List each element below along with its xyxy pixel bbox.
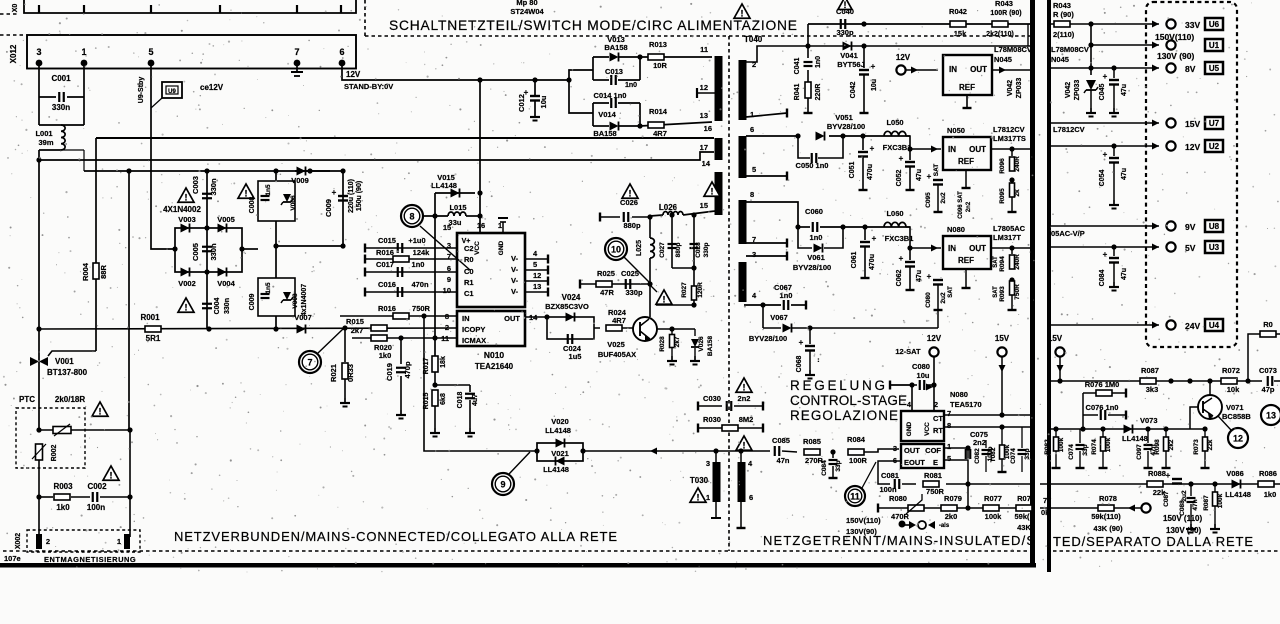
svg-text:U7: U7	[1209, 119, 1220, 128]
resistor R028	[671, 329, 673, 334]
svg-text:C087: C087	[1163, 491, 1170, 507]
svg-text:C097: C097	[1136, 444, 1143, 460]
svg-text:10u: 10u	[917, 371, 930, 380]
resistor R002	[36, 444, 43, 460]
wire 24V	[1051, 324, 1159, 326]
svg-text:BYT56J: BYT56J	[837, 60, 865, 69]
svg-text:V026: V026	[698, 336, 705, 352]
svg-text:SAT: SAT	[948, 286, 954, 298]
inductor L060	[884, 222, 906, 227]
svg-text:15: 15	[700, 201, 708, 210]
wire EOUT to C081	[878, 461, 901, 484]
wire x130 down	[129, 430, 131, 537]
wire into diode network	[569, 70, 593, 113]
svg-text:6: 6	[749, 493, 753, 502]
triac V001	[48, 351, 96, 356]
svg-text:U1: U1	[1209, 41, 1220, 50]
svg-text:EOUT: EOUT	[904, 458, 925, 467]
capacitor C014	[593, 103, 640, 126]
wire 33V	[1091, 23, 1159, 25]
wire into OUT pin3	[864, 449, 899, 452]
capacitor C041	[807, 24, 809, 46]
svg-text:V009: V009	[291, 176, 309, 185]
pin4 row C067	[744, 304, 781, 306]
T040 primary bar lower	[715, 172, 723, 215]
svg-text:C0: C0	[464, 267, 474, 276]
warning triangle above C026	[622, 184, 638, 198]
svg-text:··: ··	[816, 358, 823, 363]
svg-text:ICOPY: ICOPY	[462, 325, 485, 334]
inductor L050	[884, 131, 906, 136]
svg-text:C080: C080	[925, 292, 932, 308]
svg-text:REF: REF	[959, 83, 975, 92]
svg-text:U9: U9	[168, 89, 176, 95]
svg-text:+: +	[872, 234, 877, 243]
wire pin8 row	[746, 202, 798, 227]
svg-text:6: 6	[750, 125, 754, 134]
node circle 10	[605, 238, 627, 260]
svg-text:RT: RT	[933, 426, 943, 435]
node circle 9	[492, 473, 514, 495]
svg-text:220R: 220R	[815, 84, 822, 101]
diode V073	[1124, 425, 1133, 434]
svg-text:C074: C074	[1010, 448, 1017, 464]
svg-text:C052: C052	[896, 170, 903, 187]
resistor R018	[340, 315, 457, 317]
vertical x1091	[1090, 24, 1092, 75]
svg-text:100R (90): 100R (90)	[990, 10, 1021, 17]
svg-text:!: !	[741, 8, 744, 18]
svg-text:!: !	[110, 470, 113, 480]
resistor R084	[848, 449, 864, 455]
svg-text:R0: R0	[464, 255, 474, 264]
resistor R001	[145, 326, 161, 332]
svg-text:ENTMAGNETISIERUNG: ENTMAGNETISIERUNG	[44, 555, 136, 564]
svg-text:BUF405AX: BUF405AX	[598, 350, 636, 359]
wire 12V	[1051, 145, 1159, 147]
svg-text:11: 11	[850, 492, 860, 502]
svg-text:R086: R086	[1259, 469, 1277, 478]
svg-text:V020: V020	[551, 417, 569, 426]
warning triangle at pin15	[704, 182, 720, 196]
svg-text:R073: R073	[1193, 439, 1200, 455]
svg-text:L78M08CV: L78M08CV	[1051, 45, 1089, 54]
svg-text:C013: C013	[605, 67, 623, 76]
svg-text:LM317TS: LM317TS	[993, 134, 1026, 143]
resistor R082L	[1000, 445, 1005, 459]
inductor L001	[39, 124, 84, 126]
svg-text:COF: COF	[925, 446, 941, 455]
diode V061 parallel	[798, 227, 843, 248]
diode V002	[181, 268, 190, 277]
resistor R087 right	[1140, 378, 1156, 384]
svg-text:R078: R078	[1099, 494, 1117, 503]
svg-text:100n: 100n	[87, 503, 105, 512]
wire E row	[944, 459, 968, 461]
diagonal from circle 7	[318, 329, 343, 353]
PTC dashed box	[16, 408, 85, 468]
svg-text:X002: X002	[15, 533, 22, 549]
resistor R095	[1010, 183, 1015, 197]
svg-text:R079: R079	[944, 494, 962, 503]
svg-text:2n2: 2n2	[738, 394, 751, 403]
svg-text:N010: N010	[484, 350, 505, 360]
svg-text:2n2: 2n2	[966, 201, 972, 212]
wire 12-SAT down	[933, 357, 935, 411]
svg-text:V086: V086	[1226, 469, 1244, 478]
svg-text:BZX85C3VO: BZX85C3VO	[545, 302, 589, 311]
capacitor C015	[364, 244, 366, 253]
svg-text:15: 15	[443, 223, 451, 232]
svg-text:12: 12	[700, 83, 708, 92]
svg-text:1: 1	[947, 442, 951, 451]
svg-text:U5: U5	[1209, 64, 1220, 73]
svg-text:FXC3B1: FXC3B1	[885, 234, 914, 243]
svg-text:1n5: 1n5	[265, 282, 272, 294]
svg-text:150V(110): 150V(110)	[846, 516, 881, 525]
svg-text:15k: 15k	[954, 29, 967, 38]
svg-text:TEA5170: TEA5170	[950, 400, 982, 409]
svg-text:VCC: VCC	[924, 422, 931, 436]
resistor R013	[640, 56, 712, 58]
resistor R098	[1165, 429, 1167, 437]
svg-text:REF: REF	[958, 157, 974, 166]
svg-text:7: 7	[947, 409, 951, 418]
svg-text:100R: 100R	[849, 456, 868, 465]
capacitor C073	[1267, 376, 1269, 386]
svg-text:9: 9	[447, 275, 451, 284]
svg-text:100p: 100p	[987, 447, 994, 462]
svg-text:750R: 750R	[926, 487, 945, 496]
page frame: left page bottom edge (thick)	[0, 563, 1036, 568]
svg-text:V021: V021	[551, 449, 569, 458]
svg-text:2u2: 2u2	[940, 292, 947, 304]
resistor R094	[1011, 248, 1013, 254]
svg-text:C001: C001	[51, 74, 71, 83]
svg-text:8: 8	[409, 212, 414, 222]
arrow to 150V terminal	[1128, 505, 1135, 512]
V071 collector	[1209, 381, 1211, 396]
svg-text:C082: C082	[974, 448, 981, 464]
svg-text:R074: R074	[1091, 439, 1098, 455]
X002 pin 2	[36, 534, 42, 549]
svg-text:1k0: 1k0	[379, 351, 392, 360]
svg-text:U9-Stby: U9-Stby	[138, 77, 145, 104]
svg-text:3: 3	[36, 47, 41, 57]
svg-text:ZP033: ZP033	[1074, 80, 1081, 101]
T040 secondary bar 2-1	[739, 60, 747, 120]
box U1	[1205, 39, 1223, 51]
resistor R021	[344, 328, 346, 362]
svg-text:47n: 47n	[1192, 499, 1199, 510]
capacitor C027 и C028 box	[671, 215, 673, 268]
resistor R093	[1010, 281, 1015, 295]
svg-text:C068: C068	[796, 356, 803, 373]
svg-text:R030: R030	[703, 415, 721, 424]
svg-text:150u (90): 150u (90)	[356, 181, 363, 211]
bus wire y160	[39, 152, 714, 160]
svg-text:240R: 240R	[1014, 156, 1021, 172]
svg-text:Мр 80: Мр 80	[516, 0, 537, 7]
vertical x39 main left rail	[38, 160, 40, 355]
connector X002 dashed box	[27, 530, 140, 552]
wire bottom row y508	[877, 504, 879, 513]
capacitor C084b	[832, 452, 834, 458]
resistor R003	[36, 494, 41, 499]
capacitor C060	[798, 226, 810, 228]
stub wire y246	[276, 245, 343, 247]
svg-text:R0: R0	[1263, 320, 1273, 329]
svg-text:LL4148: LL4148	[545, 426, 571, 435]
svg-text:R1: R1	[464, 278, 474, 287]
svg-text:R025: R025	[597, 269, 615, 278]
svg-text:V042: V042	[1007, 80, 1014, 96]
capacitor C074 right	[1079, 429, 1081, 443]
resistor R078	[1098, 505, 1114, 511]
svg-text:5: 5	[533, 260, 537, 269]
resistor R074	[1102, 429, 1104, 437]
svg-text:V014: V014	[598, 110, 616, 119]
diagonal from circle 10	[624, 257, 650, 283]
svg-text:+: +	[1103, 250, 1108, 259]
svg-text:0R33: 0R33	[346, 364, 355, 382]
terminal 12V	[1166, 141, 1175, 150]
spark gap symbol	[918, 521, 926, 529]
svg-text:C014 1n0: C014 1n0	[594, 91, 627, 100]
svg-text:L060: L060	[886, 209, 903, 218]
box U4	[1205, 319, 1223, 331]
op-amp N010 IC body lower	[457, 311, 525, 346]
svg-text:C060: C060	[805, 207, 823, 216]
svg-text:59k(: 59k(	[1014, 512, 1030, 521]
T030 bar left	[713, 462, 721, 502]
svg-text:C081: C081	[881, 471, 899, 480]
svg-text:N050: N050	[947, 126, 965, 135]
wire 8V	[1051, 67, 1159, 69]
svg-text:R096: R096	[999, 158, 1006, 174]
svg-text:2: 2	[934, 400, 938, 409]
capacitor C001 box	[39, 85, 84, 125]
node circle 13	[1261, 405, 1280, 425]
svg-text:LL4148: LL4148	[1225, 490, 1251, 499]
bridge right connection	[242, 248, 258, 250]
svg-text:3: 3	[752, 250, 756, 259]
diagonal from circle 11	[862, 462, 876, 488]
svg-text:8: 8	[947, 421, 951, 430]
svg-text:12: 12	[1233, 434, 1243, 444]
svg-text:39m: 39m	[38, 138, 53, 147]
svg-text:R072: R072	[1222, 366, 1240, 375]
svg-text:REGOLAZIONE: REGOLAZIONE	[790, 408, 898, 423]
svg-text:C015: C015	[378, 236, 396, 245]
svg-text:R004: R004	[81, 262, 90, 281]
svg-text:L015: L015	[449, 203, 466, 212]
svg-text:!: !	[743, 382, 746, 392]
resistor R077	[983, 505, 999, 511]
svg-text:C076 1n0: C076 1n0	[1086, 403, 1119, 412]
svg-text:C009: C009	[249, 294, 256, 311]
diode V020 V021 box	[537, 443, 583, 461]
svg-text:9V: 9V	[1185, 222, 1196, 232]
node circle 12	[1228, 428, 1248, 448]
svg-text:R013: R013	[649, 40, 667, 49]
svg-text:L78M08CV: L78M08CV	[994, 45, 1032, 54]
svg-text:18k: 18k	[440, 356, 447, 368]
svg-text:CT: CT	[933, 414, 943, 423]
svg-text:470u: 470u	[867, 164, 874, 180]
svg-text:33p: 33p	[1082, 444, 1089, 455]
svg-text:IN: IN	[948, 145, 956, 154]
svg-text:!: !	[663, 294, 666, 304]
svg-text:+: +	[870, 144, 875, 153]
svg-text:R087: R087	[1141, 366, 1159, 375]
svg-text:T040: T040	[744, 35, 763, 44]
resistor R043 left page	[992, 21, 1008, 27]
resistor R082 right	[1055, 429, 1057, 437]
svg-text:L050: L050	[886, 118, 903, 127]
svg-text:R084: R084	[847, 435, 866, 444]
capacitor C013	[593, 79, 609, 81]
svg-text:V024: V024	[562, 293, 581, 302]
svg-text:R001: R001	[140, 313, 160, 322]
svg-text:U3: U3	[1209, 243, 1220, 252]
svg-text:3k3: 3k3	[1146, 385, 1159, 394]
svg-text:C050 1n0: C050 1n0	[796, 161, 829, 170]
svg-text:BT137-800: BT137-800	[47, 368, 88, 377]
svg-text:C018: C018	[457, 392, 464, 409]
svg-text:+: +	[927, 272, 932, 281]
svg-text:-als: -als	[939, 523, 950, 529]
svg-text:V073: V073	[1140, 416, 1158, 425]
svg-text:ce12V: ce12V	[200, 83, 224, 92]
svg-text:R088: R088	[1148, 469, 1166, 478]
capacitor C004 below bridge	[206, 272, 208, 329]
svg-text:7: 7	[307, 358, 312, 368]
svg-text:V067: V067	[770, 313, 788, 322]
svg-text:330p: 330p	[836, 28, 854, 37]
svg-text:R014: R014	[649, 107, 668, 116]
svg-text:33p: 33p	[835, 460, 842, 471]
resistor R041	[807, 70, 809, 82]
zener V042 left page	[1027, 24, 1029, 46]
vertical feeder x96	[95, 138, 97, 351]
capacitor C017	[364, 268, 366, 277]
box U2	[1205, 140, 1223, 152]
svg-text:X012: X012	[9, 44, 18, 63]
svg-text:R027: R027	[681, 282, 688, 298]
svg-text:LL4148: LL4148	[1122, 434, 1148, 443]
svg-text:V001: V001	[55, 357, 74, 366]
svg-text:R016: R016	[376, 248, 394, 257]
svg-text:1k0: 1k0	[1264, 490, 1277, 499]
diode V051	[816, 132, 825, 141]
svg-text:R081: R081	[924, 471, 942, 480]
svg-text:R002: R002	[51, 445, 58, 462]
wire N045 out	[992, 69, 1030, 71]
svg-text:6k8: 6k8	[440, 393, 447, 405]
svg-text:C080: C080	[912, 362, 930, 371]
svg-text:SAT: SAT	[993, 256, 999, 268]
svg-text:VCC: VCC	[474, 241, 481, 255]
electrolytic C068	[809, 328, 811, 344]
svg-text:OUT: OUT	[504, 314, 520, 323]
svg-text:22k: 22k	[1207, 439, 1214, 450]
capacitor C005	[206, 228, 208, 272]
wire pin6 stand-by 0V	[342, 62, 569, 80]
capacitor C095 SAT	[933, 179, 943, 181]
svg-text:43K (90): 43K (90)	[1093, 524, 1123, 533]
svg-text:R098: R098	[1154, 439, 1161, 455]
svg-text:OUT: OUT	[970, 65, 987, 74]
svg-text:C062: C062	[896, 270, 903, 287]
svg-text:2u2: 2u2	[940, 192, 947, 204]
svg-text:+: +	[332, 188, 337, 197]
svg-text:!: !	[743, 440, 746, 450]
svg-text:BC858B: BC858B	[1222, 412, 1251, 421]
resistor R086	[1258, 481, 1274, 487]
diode V086	[1232, 480, 1241, 489]
svg-text:C042: C042	[850, 82, 857, 99]
svg-text:470n: 470n	[411, 280, 429, 289]
svg-text:8: 8	[750, 190, 754, 199]
capacitor C030	[697, 402, 699, 411]
svg-text:N045: N045	[1051, 55, 1069, 64]
top partial connector box	[24, 0, 356, 13]
svg-text:C096 SAT: C096 SAT	[958, 191, 964, 219]
T040 secondary bar 3-4	[739, 262, 747, 302]
svg-text:88R: 88R	[99, 265, 108, 279]
warning triangle near C003	[178, 188, 194, 202]
wire pin6 row y136	[746, 135, 798, 137]
svg-text:C027: C027	[659, 242, 666, 258]
PTC resistor symbol	[53, 427, 71, 434]
svg-text:47u: 47u	[1121, 168, 1128, 180]
svg-text:R015: R015	[346, 317, 364, 326]
terminal 5V	[1166, 242, 1175, 251]
svg-text:5V: 5V	[1185, 243, 1196, 253]
ground below R015b	[434, 428, 436, 433]
capacitor C025	[625, 279, 627, 289]
svg-text:C017: C017	[376, 260, 394, 269]
wire 9V	[1051, 225, 1159, 227]
svg-text:130V (90): 130V (90)	[1157, 51, 1194, 61]
wire y430 row	[39, 429, 130, 431]
V071 emitter to node 12	[1218, 416, 1231, 430]
svg-text:L7812CV: L7812CV	[993, 125, 1025, 134]
svg-text:V071: V071	[1226, 403, 1244, 412]
wire N080 out	[991, 247, 1030, 249]
T030 bar right	[738, 462, 746, 502]
capacitor C074L	[1018, 449, 1027, 451]
svg-text:C002: C002	[87, 482, 107, 491]
dashed border top-left box vertical	[364, 0, 366, 36]
T030 pin6 lead	[740, 502, 742, 528]
svg-text:LM317T: LM317T	[993, 233, 1021, 242]
svg-text:+: +	[899, 154, 904, 163]
svg-text:C085: C085	[772, 436, 790, 445]
svg-text:!: !	[185, 302, 188, 312]
box U5	[1205, 62, 1223, 74]
svg-text:33V: 33V	[1185, 20, 1200, 30]
resistor R073	[1204, 429, 1206, 437]
svg-text:47u: 47u	[1121, 268, 1128, 280]
svg-text:4x1N4007: 4x1N4007	[301, 284, 308, 316]
resistor R07x 59k	[1016, 505, 1032, 511]
svg-text:C016: C016	[378, 280, 396, 289]
svg-text:47u: 47u	[916, 169, 923, 181]
svg-text:C074: C074	[1068, 444, 1075, 460]
svg-text:13: 13	[700, 111, 708, 120]
